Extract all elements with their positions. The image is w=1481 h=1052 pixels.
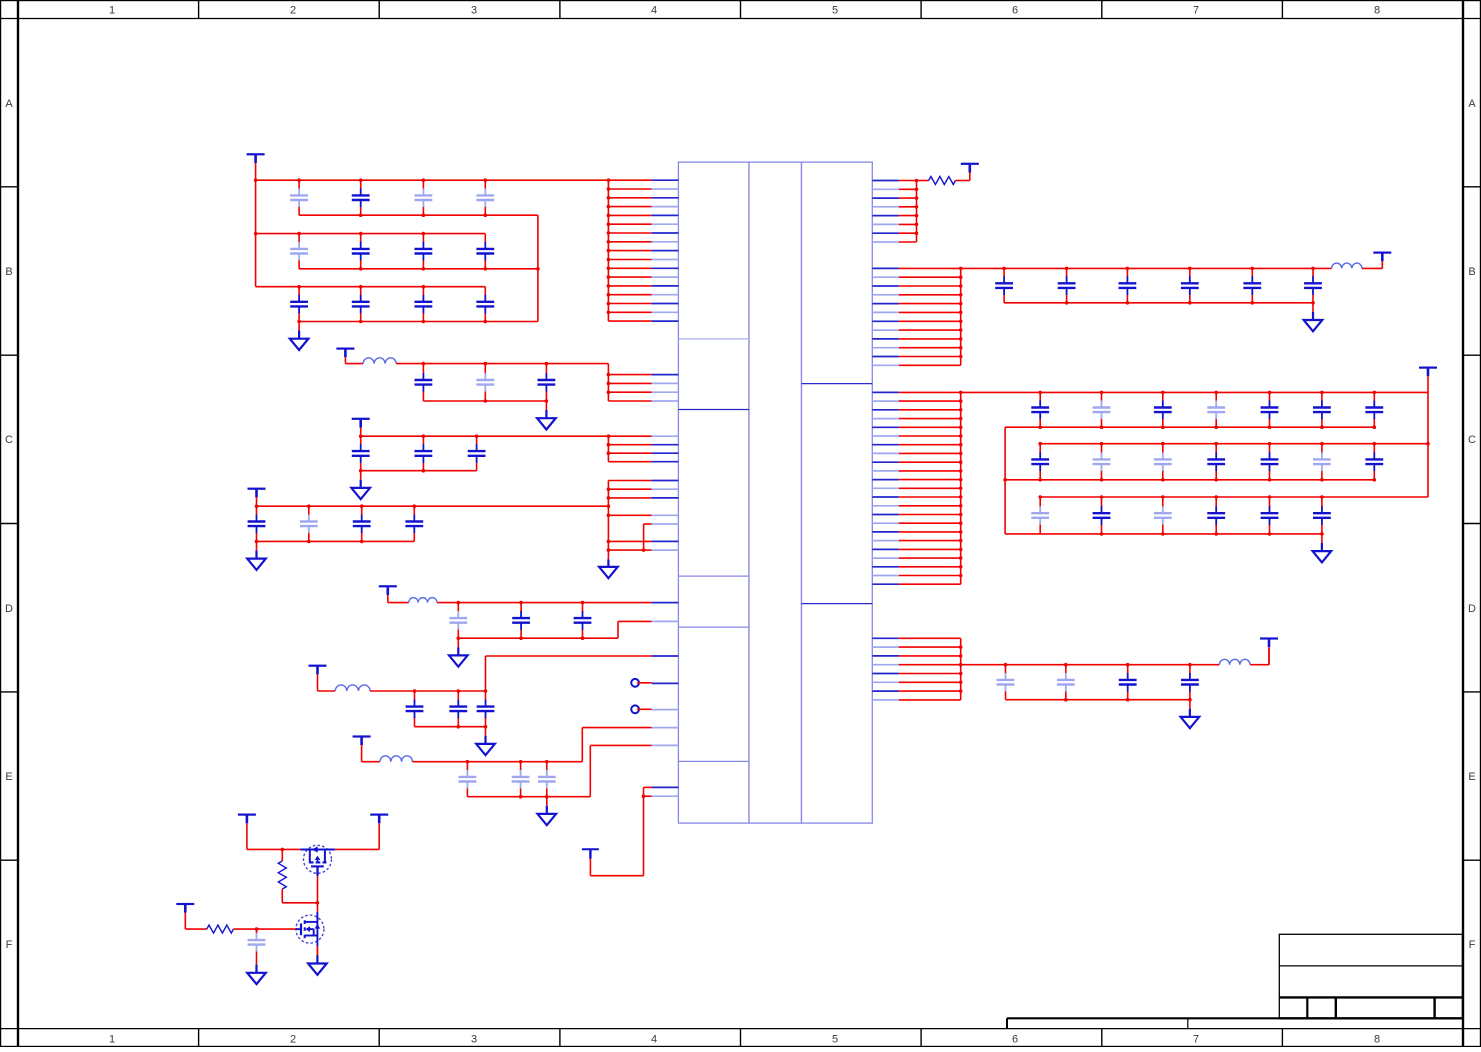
svg-text:D: D [1468,603,1476,615]
svg-text:E: E [1468,771,1475,783]
svg-text:C: C [5,434,13,446]
svg-text:1: 1 [109,5,115,17]
svg-text:B: B [1468,266,1475,278]
svg-text:5: 5 [832,5,838,17]
svg-text:1: 1 [109,1034,115,1046]
svg-text:2: 2 [290,5,296,17]
svg-text:A: A [1468,98,1476,110]
svg-text:6: 6 [1012,1034,1018,1046]
svg-text:F: F [6,939,13,951]
svg-text:3: 3 [471,1034,477,1046]
svg-text:B: B [5,266,12,278]
svg-text:C: C [1468,434,1476,446]
svg-text:4: 4 [651,5,657,17]
svg-text:8: 8 [1374,5,1380,17]
svg-text:7: 7 [1193,5,1199,17]
svg-text:D: D [5,603,13,615]
svg-text:A: A [5,98,13,110]
svg-text:E: E [5,771,12,783]
svg-text:6: 6 [1012,5,1018,17]
svg-text:3: 3 [471,5,477,17]
svg-text:5: 5 [832,1034,838,1046]
svg-text:4: 4 [651,1034,657,1046]
svg-text:7: 7 [1193,1034,1199,1046]
svg-text:F: F [1469,939,1476,951]
svg-text:2: 2 [290,1034,296,1046]
svg-text:8: 8 [1374,1034,1380,1046]
